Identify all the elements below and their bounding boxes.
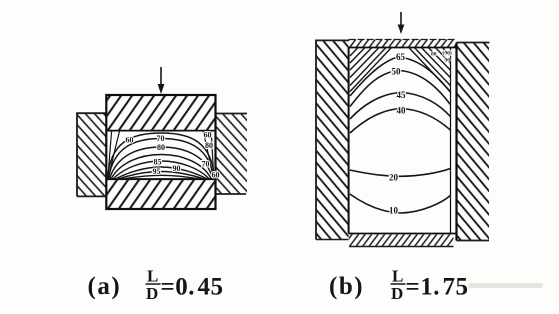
contour unlabeled (a)	[111, 155, 211, 180]
svg-text:50: 50	[392, 67, 402, 77]
contour 95 (a)	[119, 172, 205, 180]
contour limb near left edge (a)	[108, 131, 112, 178]
contour limb near right edge (a)	[211, 131, 214, 178]
svg-text:60: 60	[126, 136, 134, 145]
svg-text:80: 80	[431, 52, 437, 58]
contour family (a)	[108, 131, 215, 179]
top platen band inside specimen (a), hatched	[106, 95, 215, 131]
svg-text:40: 40	[397, 106, 407, 116]
svg-text:=0.45: =0.45	[161, 274, 224, 301]
contour 45 (b)	[350, 93, 450, 120]
svg-text:(90): (90)	[443, 50, 452, 57]
contour innermost (a)	[123, 175, 201, 179]
top die strip (b), hatched	[349, 40, 457, 48]
svg-text:L: L	[392, 267, 403, 286]
contour 10 (b)	[350, 194, 451, 213]
fraction L/D (a)	[146, 267, 161, 304]
right die shoulder block (a), hatched	[216, 114, 248, 195]
upper platen/specimen interface line (a)	[106, 130, 215, 132]
contour 60 (a)	[108, 133, 215, 179]
fraction L/D (b)	[391, 267, 406, 304]
dead-zone fan top-right corner (b)	[409, 48, 450, 92]
contour 85 (a)	[113, 161, 209, 179]
svg-text:(b): (b)	[329, 273, 364, 300]
bottom platen band inside specimen (a), hatched	[106, 179, 215, 209]
svg-text:90: 90	[445, 58, 451, 64]
contour value labels (b)	[389, 52, 406, 216]
svg-text:(a): (a)	[88, 273, 122, 300]
left die shoulder block (a), hatched	[77, 113, 106, 196]
svg-text:85: 85	[154, 157, 162, 166]
svg-text:60: 60	[212, 170, 220, 179]
contour limb 2 near right edge (a)	[203, 131, 213, 178]
contour value labels (a)	[126, 131, 220, 180]
svg-text:95: 95	[153, 167, 161, 176]
svg-text:80: 80	[157, 143, 165, 152]
bottom die strip (b), hatched	[349, 234, 457, 247]
contour 80 (a)	[110, 147, 213, 179]
specimen right edge (b)	[450, 48, 452, 234]
contour 50 (b)	[350, 71, 450, 107]
svg-text:D: D	[146, 284, 158, 303]
contour 70 (a)	[109, 139, 214, 180]
svg-text:45: 45	[397, 90, 407, 100]
svg-text:D: D	[391, 284, 403, 303]
contour limb 2 near left edge (a)	[108, 131, 119, 178]
svg-text:70: 70	[202, 160, 210, 169]
right container wall (b), hatched	[457, 43, 490, 241]
svg-text:20: 20	[389, 173, 399, 183]
contour 40 (b)	[350, 109, 450, 134]
lower platen/specimen interface line (a)	[106, 178, 215, 180]
svg-text:10: 10	[389, 206, 399, 216]
faint scan smudge right of caption (b)	[468, 283, 543, 288]
specimen outline (a)	[106, 95, 215, 209]
contour 20 (b)	[350, 169, 451, 177]
svg-text:65: 65	[396, 52, 406, 62]
contour 90 (a)	[116, 167, 208, 179]
svg-text:80: 80	[205, 141, 213, 150]
right wall inner edge line (b)	[455, 43, 457, 241]
load arrow (b)	[398, 12, 405, 34]
load arrow (a)	[158, 67, 165, 94]
tiny corner labels top-right (b)	[431, 50, 452, 64]
contour 65 (b)	[350, 57, 450, 96]
dead-zone fan top-left corner (b)	[350, 48, 391, 92]
svg-text:90: 90	[173, 164, 181, 173]
left container wall (b), hatched	[316, 40, 349, 239]
svg-text:70: 70	[157, 134, 165, 143]
svg-text:L: L	[147, 267, 158, 286]
contour family (b)	[350, 57, 451, 213]
svg-text:=1.75: =1.75	[406, 274, 469, 301]
svg-text:60: 60	[204, 131, 212, 140]
specimen left edge (b)	[348, 48, 350, 234]
